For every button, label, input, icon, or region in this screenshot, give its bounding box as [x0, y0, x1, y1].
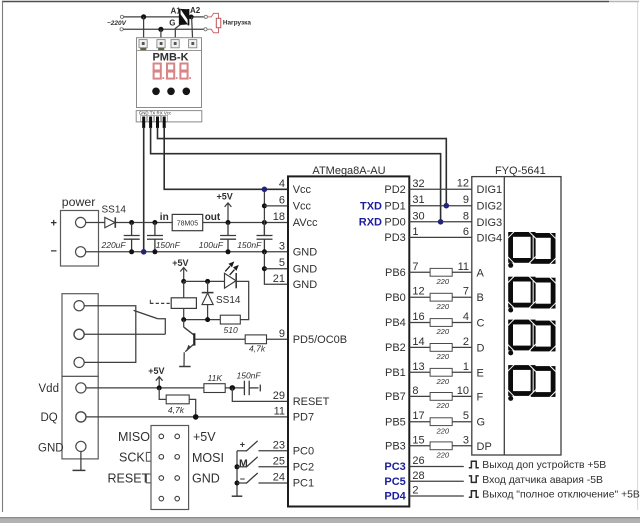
wire R to B	[452, 296, 472, 298]
svg-text:AVcc: AVcc	[293, 217, 318, 229]
frame left border	[2, 2, 4, 513]
svg-text:220: 220	[436, 426, 450, 435]
pin pad 2	[148, 115, 154, 121]
wire pin28 out	[409, 480, 464, 482]
svg-text:7: 7	[412, 261, 418, 273]
svg-text:25: 25	[273, 455, 285, 467]
load resistor body	[216, 18, 221, 27]
svg-text:DIG4: DIG4	[477, 232, 503, 244]
svg-text:+5V: +5V	[148, 366, 164, 376]
wire pin12 to R	[409, 296, 430, 298]
svg-text:G: G	[169, 18, 175, 27]
svg-text:PB0: PB0	[385, 292, 406, 304]
svg-text:+5V: +5V	[172, 258, 188, 268]
wire switchM to pin25	[258, 466, 288, 468]
junction dot pin2 on N wire	[158, 27, 163, 32]
svg-text:220: 220	[436, 352, 450, 361]
svg-text:GND: GND	[293, 263, 318, 275]
svg-text:Вход датчика авария -5В: Вход датчика авария -5В	[482, 475, 603, 486]
wire pin2 out	[409, 495, 464, 497]
wire N: terminal to right load terminal	[123, 28, 203, 30]
relay switch blade	[134, 310, 158, 318]
svg-text:220: 220	[436, 327, 450, 336]
junction dot gnd PMB-K GND (navy)	[141, 249, 147, 255]
svg-text:DIG1: DIG1	[477, 184, 503, 196]
svg-text:6: 6	[463, 226, 469, 238]
Vdd pin circle	[76, 383, 86, 393]
pulse icon out1	[469, 461, 479, 468]
svg-text:150nF: 150nF	[156, 240, 181, 250]
pin leg GND	[142, 117, 145, 129]
svg-text:D: D	[477, 342, 485, 354]
svg-text:PB3: PB3	[385, 441, 406, 453]
svg-text:A2: A2	[190, 6, 201, 15]
svg-text:5: 5	[279, 257, 285, 269]
svg-text:M: M	[239, 457, 248, 469]
resistor 4,7k (pullup)	[166, 395, 189, 404]
svg-text:PD7: PD7	[293, 412, 314, 424]
resistor R-A 220	[430, 268, 452, 276]
svg-text:power: power	[62, 195, 96, 209]
wire coil bottom to collector node	[183, 308, 185, 319]
svg-text:510: 510	[224, 325, 238, 335]
svg-text:PB7: PB7	[385, 391, 406, 403]
wire Vdd line	[86, 387, 204, 389]
svg-text:78M05: 78M05	[177, 221, 199, 228]
PMB-K dp2	[176, 77, 178, 79]
svg-text:in: in	[160, 212, 169, 223]
svg-text:out: out	[205, 212, 221, 223]
svg-text:11K: 11K	[208, 373, 223, 383]
svg-text:Vcc: Vcc	[293, 184, 312, 196]
PMB-K dp3	[189, 77, 191, 79]
svg-text:C: C	[477, 318, 485, 330]
frame right border	[637, 2, 639, 510]
wire R to G	[452, 421, 472, 423]
svg-text:220: 220	[436, 302, 450, 311]
terminal load top	[204, 15, 207, 18]
digit 3	[507, 319, 557, 356]
wire PMB-K Vcc to +5V / pin4	[164, 127, 288, 189]
switch +	[237, 450, 247, 452]
resistor 11K	[204, 384, 225, 393]
svg-text:12: 12	[412, 286, 424, 298]
terminal square 1	[139, 40, 147, 48]
wire R to DP	[452, 445, 472, 447]
LED D2	[225, 261, 239, 288]
contact pin 2 circle	[74, 329, 84, 339]
wire Vdd to 4.7k pullup	[159, 388, 166, 400]
svg-text:32: 32	[412, 178, 424, 190]
svg-text:220: 220	[436, 377, 450, 386]
regulator 78M05	[172, 214, 203, 230]
power connector X1	[61, 211, 99, 267]
svg-text:29: 29	[273, 390, 285, 402]
junction dot +5V/100uF top	[226, 220, 231, 225]
svg-text:RXD: RXD	[359, 216, 382, 228]
terminal square 2	[157, 40, 165, 48]
ISP pin hole r3c2	[175, 476, 180, 481]
svg-text:−: −	[240, 474, 245, 484]
svg-text:GND: GND	[38, 442, 64, 454]
wire pin1 to DIG4	[409, 236, 472, 238]
svg-text:PD5/OC0B: PD5/OC0B	[293, 334, 347, 346]
svg-text:4,7k: 4,7k	[249, 344, 266, 354]
resistor R-DP 220	[430, 442, 452, 450]
diode SS14 flyback	[202, 281, 214, 319]
ISP pin hole r2c1	[159, 455, 164, 460]
ISP pin hole r4c2	[175, 496, 180, 501]
wire PMB-K GND down to ground rail	[143, 127, 145, 252]
junction dot 150nF top	[152, 220, 157, 225]
svg-text:24: 24	[273, 472, 285, 484]
svg-text:PB2: PB2	[385, 342, 406, 354]
svg-text:Выход "полное отключение" +5В: Выход "полное отключение" +5В	[482, 490, 640, 501]
svg-text:PD3: PD3	[384, 232, 405, 244]
svg-text:9: 9	[279, 328, 285, 340]
+5V symbol (Vdd)	[148, 366, 164, 388]
junction dot bus M	[235, 464, 240, 469]
svg-text:MOSI: MOSI	[192, 451, 224, 465]
terminal load bottom	[204, 28, 207, 31]
junction dot pin1 on L wire	[141, 14, 146, 19]
svg-text:B: B	[477, 292, 484, 304]
wire from A2 dot down to PMB-K terminal 4	[192, 17, 193, 40]
diode SS14 (input)	[105, 217, 116, 228]
svg-text:FYQ-5641: FYQ-5641	[495, 165, 546, 177]
svg-text:2: 2	[412, 485, 418, 497]
svg-text:MISO: MISO	[118, 430, 150, 444]
svg-text:30: 30	[412, 210, 424, 222]
switch M	[237, 466, 247, 468]
svg-text:GND: GND	[293, 247, 318, 259]
capacitor C3 100uF	[220, 223, 236, 252]
svg-text:DP: DP	[477, 441, 492, 453]
wire triac A2 to load terminal	[189, 16, 204, 18]
pulse icon in (inverted)	[469, 476, 479, 483]
resistor 4.7k (base)	[245, 335, 266, 344]
sensor connector X3	[62, 376, 98, 459]
wire base to 4.7k	[195, 338, 245, 340]
junction dot collector node	[181, 317, 186, 322]
capacitor C1 220uF	[124, 223, 140, 252]
resistor R-C 220	[430, 319, 452, 327]
svg-text:PB5: PB5	[385, 416, 406, 428]
resistor R-F 220	[430, 393, 452, 401]
svg-text:RESET: RESET	[108, 472, 150, 486]
svg-text:Vdd: Vdd	[39, 383, 59, 395]
svg-text:PD0: PD0	[384, 216, 405, 228]
svg-text:Нагрузка: Нагрузка	[223, 19, 251, 26]
svg-text:28: 28	[412, 470, 424, 482]
svg-text:Выход доп устройств +5В: Выход доп устройств +5В	[482, 460, 606, 471]
svg-text:Vcc: Vcc	[293, 201, 312, 213]
svg-text:5: 5	[463, 410, 469, 422]
svg-text:4: 4	[463, 311, 469, 323]
junction dot SS14 top	[205, 279, 210, 284]
svg-text:150nF: 150nF	[237, 370, 262, 380]
junction dot gnd 220uF	[129, 249, 134, 254]
gate wire to PMB-K terminal 3	[175, 25, 180, 40]
wire 4.7k to DQ line	[189, 399, 196, 417]
pin pad 4	[162, 115, 168, 121]
svg-text:220: 220	[436, 277, 450, 286]
+5V symbol above rail	[217, 191, 233, 222]
junction dot gnd 150nF2	[262, 249, 267, 254]
wire blade end to common	[158, 319, 166, 335]
ISP pin hole r4c1	[159, 496, 164, 501]
svg-text:DQ: DQ	[41, 412, 58, 424]
power pin + circle	[76, 217, 86, 227]
svg-text:SCK: SCK	[119, 450, 145, 464]
svg-text:1: 1	[412, 226, 418, 238]
ISP pin hole r1c1	[159, 434, 164, 439]
svg-text:A1: A1	[171, 6, 182, 15]
wire pin15 to R	[409, 445, 430, 447]
PMB-K outer box	[137, 38, 202, 108]
wire +5V node to coil top	[183, 281, 185, 297]
svg-text:A: A	[477, 267, 485, 279]
pin leg TX	[149, 117, 152, 129]
svg-text:SS14: SS14	[216, 295, 241, 306]
display divider	[503, 177, 505, 455]
wire pin17 to R	[409, 421, 430, 423]
ISP pin hole r3c1	[159, 476, 164, 481]
svg-text:9: 9	[463, 194, 469, 206]
svg-text:12: 12	[457, 178, 469, 190]
contact pin 3 circle	[74, 357, 84, 367]
svg-text:21: 21	[273, 273, 285, 285]
svg-text:PC1: PC1	[293, 478, 314, 490]
terminal N (bottom left)	[120, 28, 123, 31]
wire DQ line to pin11	[86, 416, 288, 418]
wire pin26 out	[409, 466, 464, 468]
button 2	[167, 88, 175, 96]
svg-text:220: 220	[436, 450, 450, 459]
wire LED cathode down to 510 resistor	[236, 281, 249, 319]
wire PMB-K RX to ATMega TXD net	[158, 127, 447, 206]
junction dot DQ	[193, 414, 199, 420]
svg-text:+: +	[51, 218, 57, 230]
ISP pin hole r2c2	[175, 455, 180, 460]
svg-text:PB6: PB6	[385, 267, 406, 279]
wire pin16 to R	[409, 322, 430, 324]
wire pin6 stub	[264, 205, 288, 207]
svg-text:GND: GND	[192, 472, 220, 486]
svg-text:3: 3	[463, 434, 469, 446]
junction dot gnd 100uF	[226, 249, 231, 254]
wire pin8 to R	[409, 395, 430, 397]
junction dot Vcc pin4 (navy)	[262, 187, 268, 193]
junction dot Vcc pin6	[262, 203, 267, 208]
junction dot 510 node	[205, 317, 210, 322]
wire +5V to LED anode	[184, 280, 225, 282]
svg-text:+5V: +5V	[217, 191, 233, 201]
ground rail (power - to ATMega GND pin3)	[86, 251, 288, 253]
terminal square 4	[189, 40, 197, 48]
svg-text:SS14: SS14	[102, 205, 127, 216]
wire L: terminal to triac A1	[124, 16, 180, 18]
wire pin30 to DIG3	[409, 221, 472, 223]
svg-text:16: 16	[412, 311, 424, 323]
wire pin31 to DIG2	[409, 205, 472, 207]
PMB-K dp1	[162, 77, 164, 79]
svg-text:F: F	[477, 391, 484, 403]
load wiring (red) top	[208, 13, 219, 18]
wire switch- to pin24	[258, 482, 288, 484]
svg-text:17: 17	[412, 410, 424, 422]
svg-text:PD2: PD2	[384, 184, 405, 196]
terminal square 3	[171, 40, 179, 48]
wire 11K to cap node	[225, 387, 244, 389]
display U2 FYQ-5641 box	[472, 177, 561, 455]
junction dot relay +5V	[181, 279, 186, 284]
svg-text:15: 15	[412, 434, 424, 446]
resistor R-B 220	[430, 293, 452, 301]
svg-text:RESET: RESET	[293, 396, 330, 408]
ISP notch RESET	[146, 474, 151, 483]
wire + to diode	[86, 222, 105, 224]
ISP notch SCK	[146, 452, 151, 461]
digit 2	[507, 276, 557, 313]
capacitor C4 150nF	[257, 223, 273, 252]
relay coil K1	[171, 298, 196, 309]
svg-text:PD4: PD4	[384, 491, 406, 503]
frame top border	[2, 1, 609, 3]
resistor 510	[220, 315, 240, 324]
junction dot TXD net (navy)	[444, 203, 450, 209]
junction dot Vdd +5V	[157, 385, 162, 390]
wire PMB-K TX to ATMega RXD net	[151, 127, 441, 222]
dashed mechanical link	[150, 302, 171, 304]
junction dot bus minus	[235, 481, 240, 486]
wire 78M05 out rail to ATMega AVcc pin18	[203, 222, 288, 224]
svg-text:GND: GND	[293, 279, 318, 291]
svg-text:−: −	[51, 246, 57, 258]
Vcc vertical branch pin4-pin6-pin18	[263, 189, 265, 235]
GND pin circle	[76, 441, 86, 451]
junction dot gnd 150nF	[152, 249, 157, 254]
pin leg Vcc	[163, 117, 166, 129]
svg-text:+5V: +5V	[193, 430, 216, 444]
DQ pin circle	[76, 412, 86, 422]
ISP header box	[151, 426, 189, 510]
svg-text:PMB-K: PMB-K	[152, 51, 188, 63]
svg-text:150nF: 150nF	[237, 240, 262, 250]
power pin - circle	[76, 247, 86, 257]
svg-text:31: 31	[412, 194, 424, 206]
wire pin7 to R	[409, 271, 430, 273]
PMB-K pin strip box	[136, 111, 202, 122]
wire 510 to collector node	[184, 319, 221, 321]
wire R to C	[452, 322, 472, 324]
svg-text:11: 11	[274, 405, 285, 417]
wire pin14 to R	[409, 346, 430, 348]
svg-text:~220V: ~220V	[107, 20, 127, 27]
triac VS1	[180, 9, 189, 26]
junction dot A2	[189, 15, 194, 20]
svg-text:DIG3: DIG3	[477, 217, 503, 229]
button 3	[183, 88, 191, 96]
button 1	[152, 88, 160, 96]
svg-text:PC3: PC3	[384, 461, 405, 473]
svg-text:GND TX RX Vcc: GND TX RX Vcc	[139, 110, 172, 115]
svg-text:7: 7	[463, 286, 469, 298]
wire switch+ to pin23	[258, 450, 288, 452]
junction dot reset node	[230, 385, 236, 391]
digit 1 (8 with dp)	[507, 231, 557, 268]
svg-text:8: 8	[412, 385, 418, 397]
svg-text:PC2: PC2	[293, 462, 314, 474]
wire contact1 to pivot	[84, 306, 136, 310]
resistor R-E 220	[430, 368, 452, 376]
PMB-K header line	[137, 49, 202, 51]
digit 4	[507, 364, 557, 401]
terminal L (top left)	[120, 15, 123, 18]
pin leg RX	[156, 117, 159, 129]
button bus	[236, 451, 238, 496]
ground (buttons)	[232, 495, 243, 497]
frame bottom bar	[0, 517, 640, 519]
wire from L dot down to PMB-K terminal 1	[143, 17, 145, 40]
ground (sensor connector)	[80, 452, 82, 471]
switch -	[237, 482, 247, 484]
svg-text:G: G	[477, 417, 486, 429]
ground (transistor emitter)	[179, 366, 190, 368]
resistor R-D 220	[430, 344, 452, 352]
+5V symbol (relay)	[172, 258, 188, 281]
svg-text:TXD: TXD	[360, 200, 382, 212]
load wiring (red) bottom	[207, 28, 218, 33]
svg-text:PC0: PC0	[293, 446, 314, 458]
svg-text:10: 10	[457, 385, 469, 397]
svg-text:PB4: PB4	[385, 317, 406, 329]
svg-text:1: 1	[463, 361, 469, 373]
svg-text:13: 13	[412, 361, 424, 373]
wire 4.7k to pin9	[267, 338, 289, 340]
svg-text:2: 2	[463, 336, 469, 348]
svg-text:220: 220	[436, 401, 450, 410]
junction dot 150nF2/Vcc vertical top	[262, 220, 267, 225]
pin pad 1	[141, 115, 147, 121]
svg-text:26: 26	[412, 455, 424, 467]
PMB-K 7seg digit 2	[167, 64, 174, 79]
svg-text:ATMega8A-AU: ATMega8A-AU	[312, 165, 385, 177]
contact pin 1 circle	[74, 301, 84, 311]
wire R to E	[452, 371, 472, 373]
svg-text:4: 4	[279, 178, 285, 190]
svg-text:220uF: 220uF	[101, 240, 127, 250]
wire contact2 (common)	[84, 333, 165, 335]
chip U1 ATMega8A-AU box	[288, 176, 409, 506]
resistor R-G 220	[430, 418, 452, 426]
svg-text:PD1: PD1	[384, 200, 405, 212]
svg-text:14: 14	[412, 336, 424, 348]
svg-text:8: 8	[463, 210, 469, 222]
wire R to A	[452, 271, 472, 273]
transistor Q1	[184, 320, 195, 367]
wire pin5 stub	[264, 268, 288, 270]
wire R to F	[452, 395, 472, 397]
capacitor 150nF (reset)	[244, 381, 260, 396]
wire gnd vertical to pin5 and pin21	[264, 252, 288, 284]
pulse icon out2	[469, 491, 479, 498]
svg-text:PB1: PB1	[385, 367, 406, 379]
PMB-K 7seg digit 1	[154, 64, 161, 79]
svg-text:+: +	[240, 439, 245, 449]
wire pivot down to contact3	[84, 310, 136, 362]
wire reset node to pin29	[232, 388, 288, 402]
